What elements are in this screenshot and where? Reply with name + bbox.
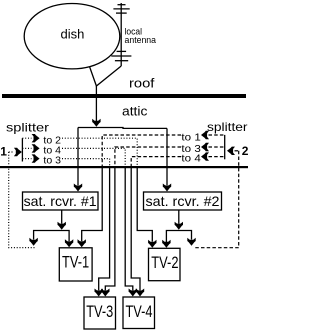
wire: attic drop to TV-2 bbox=[137, 168, 152, 242]
svg-text:attic: attic bbox=[122, 105, 147, 119]
right splitter bracket bbox=[224, 135, 226, 159]
wire: to-2 run across attic, drops at x137 bbox=[62, 138, 137, 167]
antenna element mid 1 bbox=[117, 50, 127, 52]
sat receiver 2 box bbox=[144, 192, 222, 210]
svg-text:2: 2 bbox=[242, 144, 248, 158]
wire: attic drop to TV-4 left bbox=[125, 168, 133, 291]
antenna element mid 3 bbox=[115, 60, 128, 62]
local antenna mast bbox=[120, 3, 122, 66]
svg-text:roof: roof bbox=[129, 77, 155, 91]
roof line bbox=[2, 94, 246, 98]
wire: to-3 run across attic, drops at x114 bbox=[115, 147, 181, 168]
dish ellipse bbox=[24, 4, 120, 69]
wire: rcvr2 splitter bar bbox=[166, 231, 191, 243]
wire: left splitter out to 4 stub bbox=[22, 147, 31, 149]
wire: to-3 run across attic, drops at x109 bbox=[62, 159, 110, 168]
wire: attic drop to TV-1 bbox=[82, 168, 103, 242]
wire: attic drop to TV-3 left bbox=[99, 168, 110, 291]
wire: feed 2 into right splitter bbox=[227, 147, 235, 155]
wire: attic drop to TV-4 right bbox=[131, 168, 140, 291]
wire: right splitter out to 4 stub bbox=[209, 156, 225, 158]
svg-text:to 1: to 1 bbox=[181, 131, 201, 143]
svg-text:TV-3: TV-3 bbox=[86, 303, 113, 321]
svg-text:to 3: to 3 bbox=[43, 154, 61, 166]
svg-text:antenna: antenna bbox=[125, 35, 157, 45]
svg-text:1: 1 bbox=[0, 145, 7, 159]
TV-4 box bbox=[123, 297, 155, 329]
wire: drop to sat rcvr 2 bbox=[166, 128, 168, 185]
wire: rcvr1 output down bbox=[61, 210, 63, 224]
svg-text:TV-2: TV-2 bbox=[151, 254, 178, 272]
arrow into TV-1 from rcvr1 bbox=[65, 239, 73, 247]
svg-text:splitter: splitter bbox=[6, 121, 49, 135]
svg-text:TV-4: TV-4 bbox=[126, 303, 153, 321]
wire: right splitter out to 3 stub bbox=[209, 146, 225, 148]
svg-text:TV-1: TV-1 bbox=[62, 253, 89, 271]
svg-text:to 4: to 4 bbox=[181, 153, 201, 165]
arrow into TV-2 from rcvr2 bbox=[162, 240, 170, 248]
wire: to-4 run across attic, drops at x125 bbox=[62, 148, 125, 167]
wire: to-1 run across attic, drops at x102 bbox=[102, 135, 181, 168]
TV-1 box bbox=[59, 248, 92, 281]
wire: rcvr1 splitter bar bbox=[34, 231, 70, 242]
wire: drop to sat rcvr 1 bbox=[77, 128, 79, 186]
antenna element top 3 bbox=[116, 12, 127, 14]
svg-text:sat. rcvr. #1: sat. rcvr. #1 bbox=[24, 193, 97, 209]
left splitter bracket bbox=[21, 138, 23, 161]
wire: return line 1 down house wall bbox=[9, 152, 35, 248]
attic floor line bbox=[0, 166, 248, 168]
wire: feed 1 into left splitter bbox=[9, 151, 14, 153]
svg-text:sat. rcvr. #2: sat. rcvr. #2 bbox=[146, 193, 220, 209]
arrow to return line 2 bbox=[187, 238, 195, 246]
wire: to-4 run across attic, drops at x131 bbox=[131, 157, 181, 168]
feedhorn funnel bbox=[90, 66, 122, 86]
sat receiver 1 box bbox=[23, 192, 99, 210]
wire: attic rail bbox=[78, 127, 167, 130]
wire: dish downlead bbox=[95, 86, 97, 121]
svg-text:dish: dish bbox=[61, 27, 85, 42]
wire: right splitter out to 1 stub bbox=[209, 134, 225, 136]
wire: attic drop to TV-3 right bbox=[105, 168, 115, 291]
antenna element top 1 bbox=[118, 4, 126, 6]
wire: return line 2 down house wall bbox=[195, 151, 239, 248]
TV-2 box bbox=[149, 248, 181, 280]
arrow to return line 1 bbox=[29, 238, 37, 246]
antenna element top 2 bbox=[113, 8, 129, 10]
TV-3 box bbox=[84, 297, 116, 329]
wire: left splitter out to 3 stub bbox=[22, 158, 31, 160]
antenna element mid 2 bbox=[111, 55, 131, 57]
wire: rcvr2 output down bbox=[178, 210, 180, 224]
wire: left splitter out to 2 stub bbox=[22, 137, 31, 139]
svg-text:splitter: splitter bbox=[207, 120, 248, 134]
